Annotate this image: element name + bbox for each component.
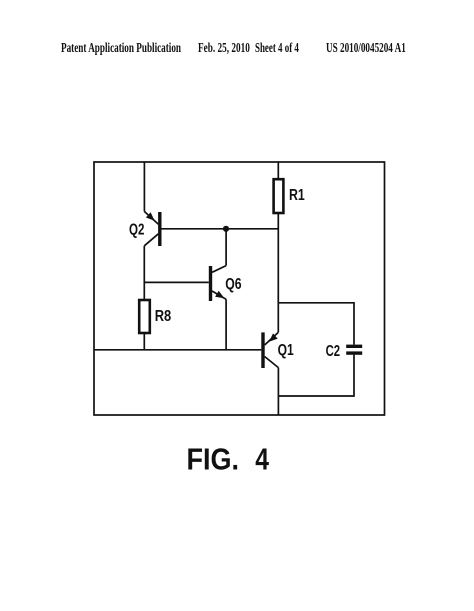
transistor Q6 base bar — [209, 266, 212, 301]
transistor Q2 base bar — [158, 212, 161, 246]
transistor Q1 base bar — [261, 332, 264, 368]
transistor Q2 emitter arrowhead — [146, 212, 155, 220]
svg-text:R1: R1 — [289, 187, 305, 204]
resistor R8 — [139, 300, 150, 333]
svg-text:FIG.: FIG. — [187, 442, 240, 477]
wire: Q6 emitter down to rail — [225, 299, 227, 350]
resistor R1 — [274, 179, 284, 213]
capacitor C2 bottom plate — [346, 351, 362, 354]
wire: R1 down to Q1 emitter — [277, 213, 279, 332]
transistor Q2 (PNP) emitter diagonal — [144, 212, 158, 225]
header right: publication number — [326, 40, 406, 56]
wire: top rail drop to Q2 emitter — [143, 162, 145, 212]
wire: Q1 collector down to bottom border — [277, 368, 279, 415]
wire: R8 bottom lead — [143, 333, 145, 350]
wire: node down to Q6 collector — [225, 229, 227, 266]
outer enclosure box — [94, 162, 385, 415]
wire: top rail drop to R1 — [277, 162, 279, 179]
svg-text:Q6: Q6 — [225, 276, 242, 293]
wire: C2 bottom connection — [278, 355, 354, 396]
node junction dot — [223, 226, 229, 232]
wire: branch to C2 top — [278, 303, 354, 345]
transistor Q6 emitter arrowhead — [215, 291, 224, 298]
svg-text:Q2: Q2 — [129, 222, 144, 239]
transistor Q6 emitter diagonal — [212, 291, 226, 299]
capacitor C2 top plate — [346, 345, 362, 348]
header middle: date — [198, 40, 250, 56]
header middle: sheet — [255, 40, 299, 56]
wire: Q2 base to node — [162, 228, 279, 230]
svg-text:C2: C2 — [326, 343, 341, 360]
transistor Q1 collector diagonal — [265, 357, 279, 368]
wire: Q6 base to Q2 collector wire — [144, 281, 209, 283]
wire: bottom rail from left border to Q1 base — [94, 349, 261, 351]
transistor Q1 emitter arrowhead — [269, 333, 278, 341]
svg-text:R8: R8 — [155, 308, 172, 325]
transistor Q6 (NPN) collector diagonal — [212, 266, 226, 273]
transistor Q1 (PNP) emitter diagonal — [265, 332, 279, 345]
header left: Patent Application Publication — [61, 40, 181, 56]
transistor Q2 collector diagonal — [144, 234, 158, 246]
svg-text:Q1: Q1 — [278, 342, 294, 359]
svg-text:4: 4 — [255, 442, 269, 477]
wire: Q2 collector down to R8 — [143, 246, 145, 300]
